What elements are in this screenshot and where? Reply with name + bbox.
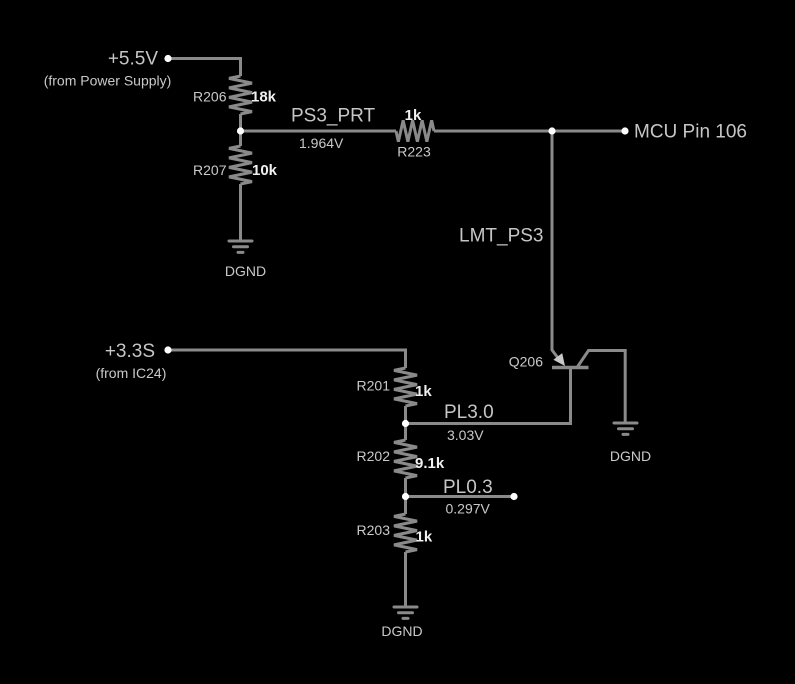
- svg-text:18k: 18k: [251, 89, 277, 106]
- svg-text:1k: 1k: [405, 107, 422, 124]
- svg-text:LMT_PS3: LMT_PS3: [459, 226, 543, 247]
- svg-text:+5.5V: +5.5V: [108, 49, 159, 70]
- svg-text:(from Power Supply): (from Power Supply): [44, 73, 172, 89]
- svg-text:DGND: DGND: [610, 448, 651, 464]
- svg-text:MCU Pin 106: MCU Pin 106: [634, 122, 747, 143]
- svg-text:Q206: Q206: [509, 354, 543, 370]
- svg-text:DGND: DGND: [381, 623, 422, 639]
- svg-text:R203: R203: [357, 522, 391, 538]
- svg-text:R202: R202: [357, 448, 391, 464]
- svg-text:PS3_PRT: PS3_PRT: [291, 105, 376, 126]
- svg-text:1.964V: 1.964V: [299, 135, 344, 151]
- svg-text:R223: R223: [397, 144, 431, 160]
- svg-text:PL3.0: PL3.0: [444, 402, 494, 423]
- svg-text:R207: R207: [193, 162, 227, 178]
- svg-text:10k: 10k: [252, 162, 278, 179]
- svg-text:0.297V: 0.297V: [446, 501, 491, 517]
- svg-text:DGND: DGND: [225, 263, 266, 279]
- svg-text:R206: R206: [193, 89, 227, 105]
- svg-text:(from IC24): (from IC24): [96, 365, 167, 381]
- svg-text:R201: R201: [357, 377, 391, 393]
- svg-text:+3.3S: +3.3S: [105, 341, 155, 362]
- svg-text:9.1k: 9.1k: [415, 455, 445, 472]
- svg-text:PL0.3: PL0.3: [443, 477, 493, 498]
- svg-text:3.03V: 3.03V: [447, 427, 484, 443]
- svg-text:1k: 1k: [415, 383, 432, 400]
- svg-text:1k: 1k: [416, 529, 433, 546]
